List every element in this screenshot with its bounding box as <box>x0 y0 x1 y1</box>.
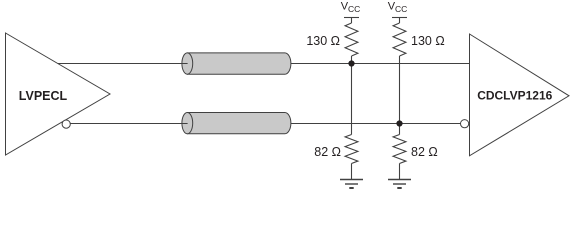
svg-text:82 Ω: 82 Ω <box>411 145 438 159</box>
svg-text:LVPECL: LVPECL <box>19 89 68 103</box>
svg-text:CDCLVP1216: CDCLVP1216 <box>477 88 552 102</box>
svg-text:130 Ω: 130 Ω <box>411 34 445 48</box>
svg-text:130 Ω: 130 Ω <box>306 34 340 48</box>
svg-text:82 Ω: 82 Ω <box>314 145 341 159</box>
